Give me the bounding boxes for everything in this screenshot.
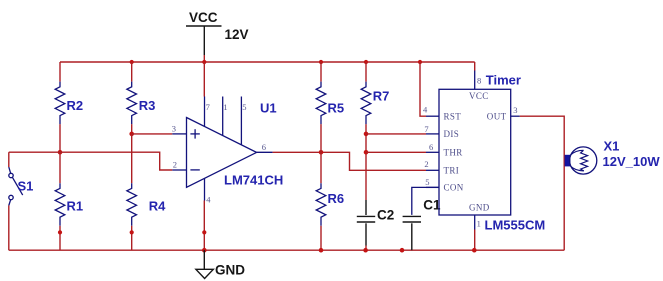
svg-text:OUT: OUT <box>487 111 507 121</box>
capacitor C2 <box>357 200 394 246</box>
svg-text:X1: X1 <box>604 139 620 154</box>
node C2 / ground bus <box>363 248 368 253</box>
node R7 / THR <box>364 150 369 155</box>
node top bus / VCC <box>202 60 206 64</box>
wire RST from top bus <box>420 62 426 116</box>
timer U2 pin 4 stub <box>423 105 439 117</box>
ground symbol GND <box>196 250 245 278</box>
svg-text:VCC: VCC <box>469 91 489 101</box>
op-amp pin 5 <box>241 97 246 146</box>
wire tap node down to R4 <box>131 134 133 183</box>
timer pin 7 stub <box>424 124 439 134</box>
wire ground bus <box>9 249 564 251</box>
resistor R5 <box>316 82 344 125</box>
wire output to TRI <box>273 152 426 170</box>
wire R7 top <box>365 62 367 82</box>
wire inverting net horizontal <box>9 152 173 170</box>
svg-text:R2: R2 <box>67 98 84 113</box>
wire R2 top <box>59 62 61 82</box>
lamp X1 <box>565 139 661 175</box>
svg-text:3: 3 <box>513 105 517 115</box>
wire OUT to lamp loop <box>520 116 564 250</box>
svg-text:DIS: DIS <box>444 129 460 139</box>
resistor R2 <box>55 82 83 125</box>
svg-text:S1: S1 <box>18 179 34 194</box>
wire R1 bottom to ground bus <box>59 226 61 250</box>
svg-text:1: 1 <box>223 102 227 112</box>
wire top bus <box>60 61 475 63</box>
timer IC U2 LM555CM box <box>439 89 511 215</box>
resistor R1 <box>55 183 83 226</box>
node pin4 joint <box>202 230 206 234</box>
node R6 / ground bus <box>319 248 324 253</box>
svg-text:LM555CM: LM555CM <box>485 218 546 233</box>
op-amp pin 4 <box>205 178 212 204</box>
switch S1 <box>9 167 34 206</box>
op-amp pin 6 output stub <box>257 142 273 152</box>
wire switch top drop <box>8 152 10 167</box>
svg-text:R5: R5 <box>328 101 345 116</box>
resistor R3 <box>127 82 155 125</box>
capacitor C1 <box>403 197 441 250</box>
node top bus / RST wire <box>418 60 422 64</box>
svg-text:R1: R1 <box>67 199 84 214</box>
node wire joint near C1 <box>400 248 405 253</box>
node R7 / DIS <box>364 132 369 137</box>
node output / R5 R6 <box>319 150 324 155</box>
timer pin 5 stub <box>425 177 439 187</box>
node R3 R4 noninverting tap <box>129 132 134 137</box>
svg-text:C2: C2 <box>377 208 394 223</box>
svg-text:R3: R3 <box>139 98 156 113</box>
svg-text:R7: R7 <box>373 89 390 104</box>
svg-text:12V_10W: 12V_10W <box>603 154 661 169</box>
svg-text:5: 5 <box>425 177 429 187</box>
wire R5 top <box>320 62 322 82</box>
node R1 R2 inverting net <box>58 150 63 155</box>
op-amp pin 1 <box>223 97 228 136</box>
wire pin 4 to ground bus <box>203 201 205 251</box>
svg-text:R4: R4 <box>149 199 166 214</box>
svg-text:CON: CON <box>444 183 464 193</box>
svg-text:GND: GND <box>215 263 245 278</box>
svg-text:6: 6 <box>262 142 266 152</box>
node R1 pin joint <box>58 230 62 234</box>
svg-text:LM741CH: LM741CH <box>224 173 283 188</box>
op-amp U1 pin 2 stub <box>172 159 186 170</box>
wire R2 bottom to node <box>59 124 61 152</box>
timer pin 8 stub <box>475 71 482 90</box>
svg-text:R6: R6 <box>328 191 345 206</box>
wire C2 to ground bus <box>365 246 367 251</box>
timer pin 2 stub <box>424 159 439 170</box>
svg-text:5: 5 <box>242 102 246 112</box>
node top bus / R7 <box>364 60 368 64</box>
wire R3 top <box>131 62 133 82</box>
wire R5 bottom to output node <box>320 124 322 152</box>
resistor R6 <box>316 183 344 226</box>
wire output node to R6 <box>320 152 322 183</box>
svg-text:12V: 12V <box>225 27 249 42</box>
svg-text:2: 2 <box>424 159 428 169</box>
svg-text:1: 1 <box>477 219 481 229</box>
resistor R4 <box>127 183 166 226</box>
wire CON to C1 <box>412 187 439 215</box>
resistor R7 <box>361 82 389 125</box>
node top bus / R3 <box>130 60 134 64</box>
svg-text:THR: THR <box>444 148 463 158</box>
node ground bus / GND <box>202 248 207 253</box>
svg-text:U1: U1 <box>260 101 277 116</box>
timer pin 1 stub <box>475 215 481 230</box>
node R4 pin joint <box>130 230 134 234</box>
wire THR <box>366 151 426 153</box>
svg-text:6: 6 <box>429 142 433 152</box>
timer pin 6 stub <box>426 142 439 153</box>
op-amp U1 <box>187 101 284 188</box>
svg-text:Timer: Timer <box>486 73 521 88</box>
wire VCC bus to pin 7 <box>203 62 205 97</box>
wire R3 bottom to tap node <box>131 124 133 134</box>
svg-text:7: 7 <box>206 102 210 112</box>
svg-text:7: 7 <box>424 124 428 134</box>
power symbol VCC <box>186 10 222 55</box>
wire pin 8 from top bus <box>474 62 476 71</box>
wire R4 bottom to ground bus <box>131 226 133 250</box>
wire DIS <box>366 133 426 135</box>
op-amp pin 7 <box>205 97 210 127</box>
node top bus / R5 <box>319 60 323 64</box>
wire VCC stub to top bus <box>203 55 205 62</box>
svg-text:VCC: VCC <box>189 10 218 25</box>
svg-text:2: 2 <box>173 159 177 169</box>
svg-text:RST: RST <box>444 111 462 121</box>
wire R6 bottom to ground bus <box>320 226 322 250</box>
op-amp U1 pin 3 stub <box>172 123 187 134</box>
timer pin 3 stub <box>511 105 520 116</box>
node pin1 / ground bus <box>472 248 477 253</box>
svg-text:4: 4 <box>206 195 211 205</box>
svg-text:GND: GND <box>469 203 490 213</box>
svg-text:TRI: TRI <box>444 166 460 176</box>
wire R7 bottom through DIS THR to C2 <box>365 124 367 200</box>
svg-text:8: 8 <box>477 76 481 86</box>
wire pin 1 to ground bus <box>474 230 476 251</box>
wire switch bottom to ground bus <box>8 206 10 251</box>
wire noninverting input <box>132 133 173 135</box>
svg-text:3: 3 <box>172 123 176 133</box>
wire node to R1 top <box>59 152 61 183</box>
